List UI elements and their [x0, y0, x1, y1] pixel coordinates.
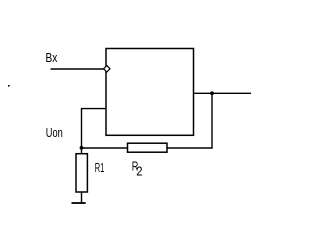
- svg-text:Uon: Uon: [46, 126, 63, 140]
- svg-text:R1: R1: [95, 161, 105, 175]
- svg-text:2: 2: [136, 165, 142, 179]
- svg-text:Bx: Bx: [46, 51, 58, 65]
